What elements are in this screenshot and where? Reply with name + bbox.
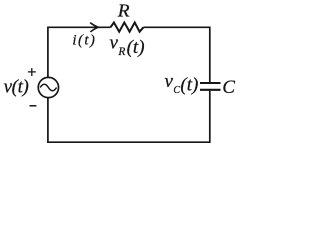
svg-text:C: C [222,78,235,98]
svg-text:R: R [117,46,125,58]
resistor R zigzag [111,23,144,32]
svg-text:R: R [117,1,130,21]
current i(t) arrow head [90,23,98,32]
svg-text:(t): (t) [180,75,198,96]
wire: bottom segment (capacitor bottom around to source bottom) [48,91,210,143]
wire: top-right segment (resistor right to capacitor top) [143,27,209,82]
voltage source v(t) circle [38,77,58,97]
minus polarity sign [30,105,37,107]
svg-text:v(t): v(t) [4,77,29,98]
svg-text:v: v [165,71,174,92]
plus polarity sign [28,68,36,76]
svg-text:C: C [173,85,180,96]
wire: top-left segment (source top to resistor left) [48,27,111,77]
svg-text:(t): (t) [127,37,145,58]
voltage source sine wave [40,84,56,91]
svg-text:i(t): i(t) [72,32,95,48]
svg-text:v: v [110,32,119,53]
capacitor C plates [200,83,221,90]
